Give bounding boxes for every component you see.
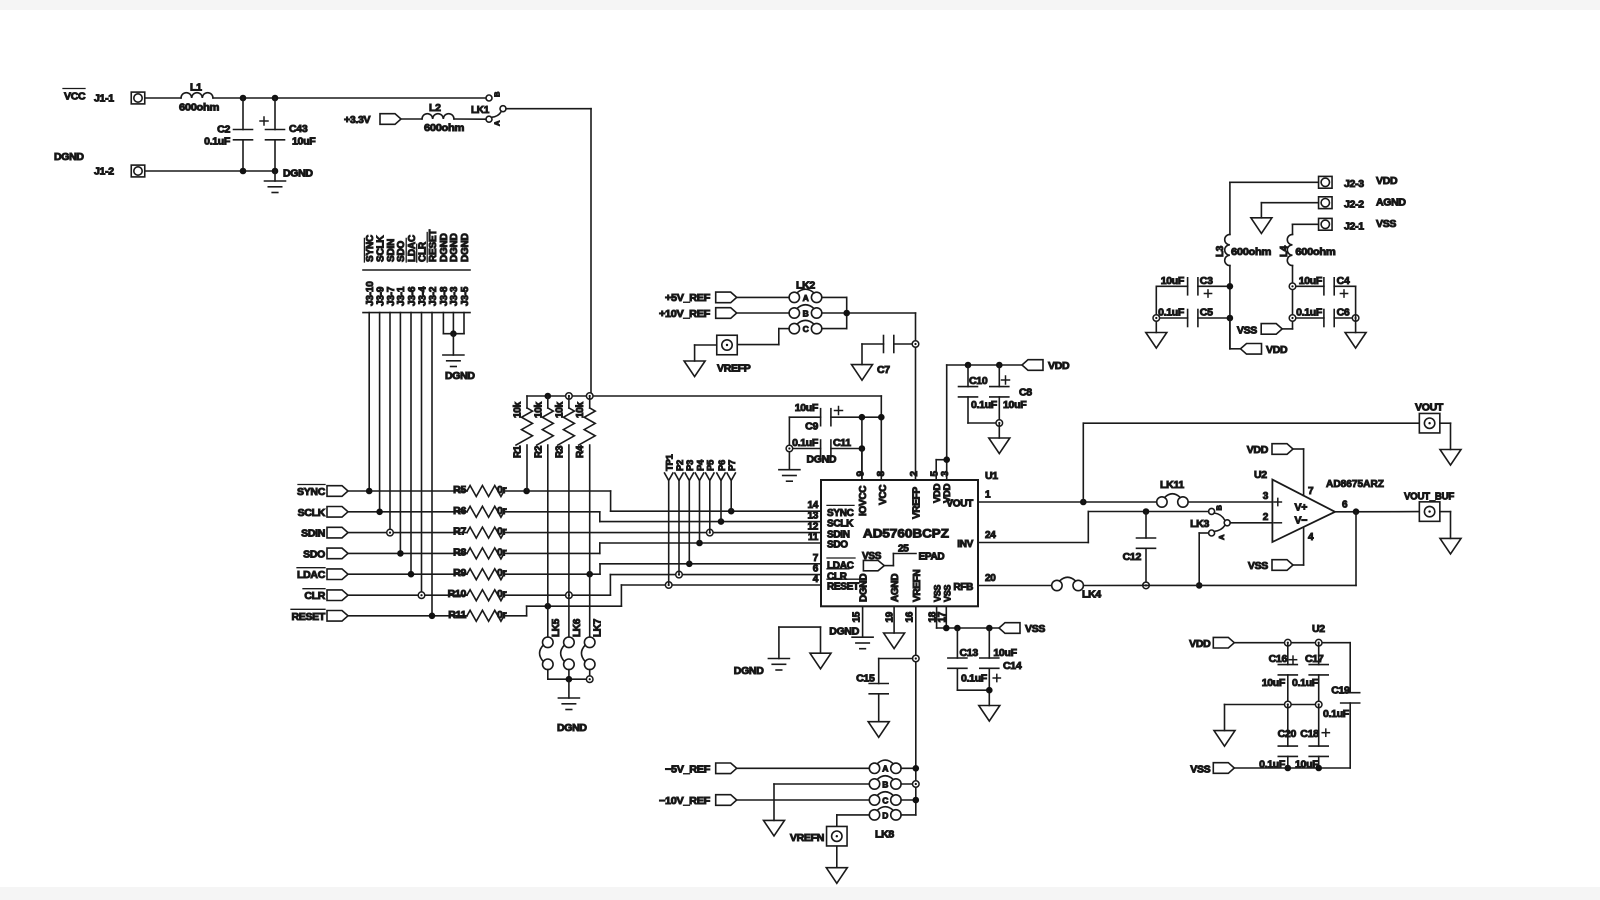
node junction xyxy=(843,310,850,317)
svg-text:DGND: DGND xyxy=(449,233,460,262)
ground AGND xyxy=(1214,731,1235,747)
wire C9 row xyxy=(789,416,820,418)
node junction R3-LK6-CLR xyxy=(566,592,573,599)
capacitor C43 polarized xyxy=(274,98,276,130)
svg-text:0.1uF: 0.1uF xyxy=(961,673,988,685)
wire LK3 to op-amp pin2 xyxy=(1230,522,1272,524)
svg-text:LK6: LK6 xyxy=(572,618,583,637)
svg-text:RESET: RESET xyxy=(827,582,859,593)
capacitor C4 10uF polarized xyxy=(1296,285,1324,287)
svg-text:C11: C11 xyxy=(833,437,851,449)
svg-text:−5V_REF: −5V_REF xyxy=(665,763,711,775)
capacitor C8 10uF polarized xyxy=(998,365,1000,387)
capacitor C11 0.1uF xyxy=(820,440,822,457)
svg-text:DGND: DGND xyxy=(445,370,475,382)
svg-text:DGND: DGND xyxy=(829,626,859,638)
svg-text:C13: C13 xyxy=(960,647,979,659)
svg-text:R7: R7 xyxy=(453,526,466,538)
svg-text:0.1uF: 0.1uF xyxy=(971,399,998,411)
capacitor C12 xyxy=(1145,512,1147,539)
resistor R3 10k xyxy=(568,396,570,408)
svg-text:SDO: SDO xyxy=(827,540,848,551)
svg-text:RFB: RFB xyxy=(953,582,973,593)
node junction xyxy=(1196,582,1203,589)
node junction xyxy=(1289,315,1296,322)
wire LK8 B row to ground xyxy=(774,783,869,785)
svg-text:5: 5 xyxy=(930,471,941,477)
wire xyxy=(1230,181,1319,183)
svg-text:DGND: DGND xyxy=(54,151,84,163)
capacitor C5 0.1uF xyxy=(1160,317,1188,319)
wire CLR row xyxy=(348,594,467,596)
ground AGND xyxy=(868,722,889,738)
ground DGND near U1 top xyxy=(788,452,790,470)
ground AGND xyxy=(1345,333,1366,349)
wire LK8 right joins xyxy=(901,767,916,769)
svg-text:VREFN: VREFN xyxy=(912,570,923,602)
node junction xyxy=(1285,639,1292,646)
svg-text:C8: C8 xyxy=(1019,387,1032,399)
svg-text:10uF: 10uF xyxy=(795,402,819,414)
svg-text:10uF: 10uF xyxy=(1299,275,1323,287)
svg-text:J3-9: J3-9 xyxy=(375,286,386,306)
net label VDD xyxy=(1241,344,1262,355)
svg-text:A: A xyxy=(1217,534,1226,540)
node junction R1-SYNC xyxy=(523,488,530,495)
svg-text:C14: C14 xyxy=(1003,660,1022,672)
svg-text:6: 6 xyxy=(813,564,819,575)
svg-text:VSS: VSS xyxy=(1025,623,1045,635)
svg-text:VSS: VSS xyxy=(1248,560,1268,572)
link LK5 xyxy=(547,606,549,637)
svg-text:J3-3: J3-3 xyxy=(449,286,460,306)
wire SYNC row xyxy=(348,490,467,492)
capacitor C17 0.1uF xyxy=(1318,643,1320,665)
wire IOVCC pin 9 xyxy=(861,417,863,480)
wire DGND pins join xyxy=(442,313,444,334)
wire xyxy=(968,422,999,424)
link LK8 xyxy=(869,763,879,773)
svg-text:R5: R5 xyxy=(453,484,466,496)
svg-text:VDD: VDD xyxy=(1189,638,1211,650)
ground AGND xyxy=(852,365,873,381)
svg-text:C43: C43 xyxy=(289,123,308,135)
svg-text:15: 15 xyxy=(852,611,863,622)
svg-text:4: 4 xyxy=(1308,532,1314,543)
wire to VOUT pad xyxy=(1082,423,1084,502)
wire xyxy=(213,97,486,99)
capacitor C7 xyxy=(862,343,884,345)
node junction xyxy=(240,168,247,175)
op-amp U1 AD5760BCPZ body xyxy=(821,480,978,606)
wire xyxy=(401,118,422,120)
svg-text:C6: C6 xyxy=(1337,307,1350,319)
svg-text:C16: C16 xyxy=(1269,653,1288,665)
svg-text:A: A xyxy=(493,120,502,126)
svg-text:0r: 0r xyxy=(497,526,507,538)
wire xyxy=(737,799,870,801)
capacitor C16 10uF polarized xyxy=(1287,643,1289,665)
node junction TP3 xyxy=(686,561,693,568)
node junction TP1 xyxy=(665,582,672,589)
svg-text:0r: 0r xyxy=(497,546,507,558)
wire SDO to pin 11 xyxy=(504,552,600,554)
node junction J3 tap CLR xyxy=(418,592,425,599)
svg-text:VCC: VCC xyxy=(878,485,889,505)
node junction TP5 xyxy=(707,529,714,536)
wire xyxy=(145,170,275,172)
svg-text:LK11: LK11 xyxy=(1160,479,1184,491)
wire LK3 bottom to feedback xyxy=(1199,532,1208,534)
connector J3 pin bar xyxy=(363,312,470,314)
svg-text:AGND: AGND xyxy=(1376,197,1406,209)
svg-text:SDIN: SDIN xyxy=(386,239,397,262)
svg-text:C3: C3 xyxy=(1200,275,1213,287)
svg-text:R9: R9 xyxy=(453,567,466,579)
svg-text:24: 24 xyxy=(985,530,996,541)
svg-text:10uF: 10uF xyxy=(993,647,1017,659)
ground AGND xyxy=(764,820,785,836)
node junction xyxy=(943,625,950,632)
svg-text:AGND: AGND xyxy=(890,574,901,602)
svg-text:L1: L1 xyxy=(190,82,202,94)
wire xyxy=(1261,202,1318,204)
node junction C15 tap xyxy=(913,655,920,662)
svg-text:J3-6: J3-6 xyxy=(407,286,418,306)
svg-text:+5V_REF: +5V_REF xyxy=(665,292,711,304)
svg-text:U1: U1 xyxy=(985,470,998,482)
svg-text:1: 1 xyxy=(985,490,991,501)
node junction J3 tap SCLK xyxy=(376,509,383,516)
capacitor C13 0.1uF xyxy=(956,628,958,658)
svg-text:D: D xyxy=(882,810,888,820)
svg-text:LDAC: LDAC xyxy=(297,569,326,581)
svg-text:0.1uF: 0.1uF xyxy=(1296,307,1323,319)
wire xyxy=(1155,321,1157,332)
ground AGND xyxy=(1440,450,1461,466)
svg-text:C2: C2 xyxy=(217,124,230,136)
svg-text:L3: L3 xyxy=(1215,245,1226,257)
link LK3 xyxy=(1209,508,1215,514)
wire xyxy=(454,118,486,120)
svg-text:C17: C17 xyxy=(1305,653,1324,665)
net label VSS xyxy=(999,623,1020,634)
svg-text:VSS: VSS xyxy=(1190,764,1210,776)
svg-text:LDAC: LDAC xyxy=(827,561,854,572)
svg-text:L2: L2 xyxy=(429,102,441,114)
svg-text:10uF: 10uF xyxy=(1003,399,1027,411)
svg-text:VOUT_BUF: VOUT_BUF xyxy=(1404,491,1455,503)
node junction xyxy=(1080,499,1087,506)
wire SCLK to pin 13 xyxy=(504,511,600,513)
svg-text:2: 2 xyxy=(909,471,920,477)
ground AGND xyxy=(1146,333,1167,349)
connector J2-1 xyxy=(1319,218,1333,230)
capacitor C3 10uF polarized xyxy=(1156,285,1187,287)
svg-text:J3-4: J3-4 xyxy=(417,286,428,306)
link LK4 xyxy=(1052,580,1062,590)
svg-text:A: A xyxy=(882,764,888,774)
node junction xyxy=(1289,283,1296,290)
node junction xyxy=(996,420,1003,427)
capacitor C14 10uF polarized xyxy=(988,628,990,658)
svg-text:VREFN: VREFN xyxy=(790,832,824,844)
svg-text:VSS: VSS xyxy=(933,585,943,602)
svg-text:10k: 10k xyxy=(533,401,544,418)
svg-text:C10: C10 xyxy=(969,375,988,387)
wire SCLK row xyxy=(348,511,467,513)
svg-text:A: A xyxy=(803,293,809,303)
svg-text:C20: C20 xyxy=(1278,728,1297,740)
svg-text:0.1uF: 0.1uF xyxy=(204,136,231,148)
wire AGND mid rail xyxy=(1225,704,1319,706)
svg-text:VOUT: VOUT xyxy=(946,499,973,510)
wire LK8 D row to VREFN pad xyxy=(837,814,869,816)
op-amp U2 AD8675ARZ xyxy=(1272,480,1335,542)
svg-text:3: 3 xyxy=(940,471,951,477)
wire xyxy=(506,108,591,110)
svg-text:600ohm: 600ohm xyxy=(1231,246,1271,258)
svg-text:R3: R3 xyxy=(554,445,565,458)
svg-text:SYNC: SYNC xyxy=(297,486,326,498)
svg-text:VSS: VSS xyxy=(942,585,952,602)
wire pin24 INV xyxy=(978,542,1088,544)
wire xyxy=(1355,286,1357,332)
wire VSS pins 18 17 xyxy=(936,606,938,628)
svg-text:SYNC: SYNC xyxy=(365,235,376,262)
ground AGND xyxy=(826,868,847,884)
svg-text:SDIN: SDIN xyxy=(827,529,850,540)
wire SDIN row xyxy=(348,532,467,534)
wire RESET to pin 4 xyxy=(504,615,527,617)
svg-text:DGND: DGND xyxy=(460,233,471,262)
wire xyxy=(1293,564,1304,566)
node junction xyxy=(545,393,552,400)
svg-text:J3-1: J3-1 xyxy=(396,286,407,306)
svg-text:B: B xyxy=(1215,505,1224,511)
svg-text:11: 11 xyxy=(808,532,819,543)
svg-text:R6: R6 xyxy=(453,505,466,517)
svg-text:INV: INV xyxy=(957,539,973,550)
svg-text:SDO: SDO xyxy=(303,548,325,560)
svg-text:7: 7 xyxy=(813,553,819,564)
wire xyxy=(957,689,989,691)
svg-text:13: 13 xyxy=(807,511,818,522)
svg-text:C18: C18 xyxy=(1300,728,1319,740)
svg-text:VOUT: VOUT xyxy=(1415,402,1444,414)
wire SDIN from J3 xyxy=(389,313,391,533)
connector VOUT_BUF pad xyxy=(1419,502,1440,521)
svg-text:DGND: DGND xyxy=(557,722,587,734)
svg-text:10k: 10k xyxy=(575,401,586,418)
connector VOUT pad xyxy=(1419,413,1440,433)
svg-text:LK4: LK4 xyxy=(1082,589,1101,601)
wire xyxy=(1083,584,1199,586)
svg-text:L4: L4 xyxy=(1279,245,1290,257)
wire CLR from J3 xyxy=(421,313,423,596)
wire RESET from J3 xyxy=(431,313,433,616)
svg-text:VREFP: VREFP xyxy=(912,487,923,519)
wire pin20 RFB xyxy=(978,585,1052,587)
node junction xyxy=(913,765,920,772)
wire VDD stub xyxy=(1229,318,1231,349)
node junction xyxy=(1227,283,1234,290)
svg-text:R11: R11 xyxy=(448,609,466,621)
node junction xyxy=(1285,701,1292,708)
svg-text:C15: C15 xyxy=(856,673,875,685)
svg-text:2: 2 xyxy=(1263,512,1269,523)
svg-text:P7: P7 xyxy=(727,460,738,471)
svg-text:J1-1: J1-1 xyxy=(94,93,114,105)
node junction xyxy=(1143,508,1150,515)
capacitor C19 0.1uF xyxy=(1349,643,1351,693)
resistor R6 0r xyxy=(467,506,504,517)
wire SDIN to pin 12 xyxy=(504,532,821,534)
svg-text:12: 12 xyxy=(807,522,818,533)
svg-text:25: 25 xyxy=(898,544,909,555)
svg-text:0r: 0r xyxy=(497,588,507,600)
resistor R2 10k xyxy=(547,396,549,408)
node junction xyxy=(240,95,247,102)
resistor R10 0r xyxy=(467,590,504,601)
wire xyxy=(737,296,789,298)
ground DGND of J3 xyxy=(452,334,454,355)
svg-text:J2-3: J2-3 xyxy=(1344,178,1364,190)
svg-text:C4: C4 xyxy=(1337,275,1350,287)
capacitor C6 0.1uF xyxy=(1296,317,1324,319)
svg-text:R8: R8 xyxy=(453,546,466,558)
wire C11 row xyxy=(793,448,821,450)
net label VDD xyxy=(1022,360,1043,371)
svg-text:IOVCC: IOVCC xyxy=(858,486,869,516)
wire LDAC row xyxy=(348,573,467,575)
svg-text:3: 3 xyxy=(1263,491,1269,502)
node junction xyxy=(986,687,993,694)
resistor R5 0r xyxy=(467,486,504,497)
resistor R9 0r xyxy=(467,569,504,580)
node junction xyxy=(566,676,573,683)
svg-text:600ohm: 600ohm xyxy=(1295,246,1335,258)
svg-text:J3-7: J3-7 xyxy=(386,286,397,306)
svg-text:9: 9 xyxy=(856,471,867,477)
resistor R8 0r xyxy=(467,548,504,559)
wire RESET row xyxy=(348,615,467,617)
inductor L1 xyxy=(181,93,213,98)
wire VSS rail U2 xyxy=(1234,767,1350,769)
svg-text:LK8: LK8 xyxy=(875,829,894,841)
svg-text:10uF: 10uF xyxy=(1262,677,1286,689)
svg-text:0r: 0r xyxy=(497,505,507,517)
svg-text:C5: C5 xyxy=(1200,307,1213,319)
svg-text:RESET: RESET xyxy=(291,611,325,623)
svg-text:SCLK: SCLK xyxy=(375,235,386,262)
wire xyxy=(861,449,863,481)
svg-text:CLR: CLR xyxy=(304,590,325,602)
svg-text:SCLK: SCLK xyxy=(827,518,854,529)
svg-text:−10V_REF: −10V_REF xyxy=(659,795,711,807)
wire VREFN pin 16 xyxy=(915,606,917,815)
svg-text:P5: P5 xyxy=(706,459,717,471)
inductor L3 600ohm xyxy=(1225,234,1230,265)
svg-text:VREFP: VREFP xyxy=(717,363,751,375)
svg-text:0.1uF: 0.1uF xyxy=(1158,307,1185,319)
ground DGND of links xyxy=(568,679,570,698)
wire xyxy=(1282,328,1292,330)
svg-text:LK7: LK7 xyxy=(593,618,604,637)
svg-text:0.1uF: 0.1uF xyxy=(1292,677,1319,689)
wire xyxy=(1440,511,1451,513)
svg-text:R1: R1 xyxy=(513,445,524,458)
connector J2-2 xyxy=(1319,197,1333,209)
node junction R4-LK7-LDAC xyxy=(586,571,593,578)
wire SDO row xyxy=(348,552,467,554)
svg-text:SYNC: SYNC xyxy=(827,508,854,519)
link LK6 xyxy=(568,595,570,637)
node junction xyxy=(1153,315,1160,322)
node junction C7 to VREFP net xyxy=(912,341,919,348)
svg-text:6: 6 xyxy=(1342,500,1348,511)
wire xyxy=(737,312,789,314)
wire CLR to pin 6 xyxy=(504,594,610,596)
svg-text:C: C xyxy=(882,795,888,805)
svg-text:DGND: DGND xyxy=(734,665,764,677)
wire SDO from J3 xyxy=(399,313,401,554)
wire xyxy=(1155,286,1157,318)
wire xyxy=(1293,223,1319,225)
svg-text:0r: 0r xyxy=(497,484,507,496)
connector J2-3 xyxy=(1319,176,1333,188)
wire LDAC from J3 xyxy=(410,313,412,575)
svg-text:AD8675ARZ: AD8675ARZ xyxy=(1326,478,1385,490)
capacitor C9 10uF polarized xyxy=(820,409,822,426)
svg-text:14: 14 xyxy=(807,500,818,511)
svg-text:LK3: LK3 xyxy=(1190,518,1209,530)
node junction xyxy=(1285,765,1292,772)
node junction xyxy=(965,362,972,369)
svg-text:RESET: RESET xyxy=(428,230,439,262)
wire VDD pins 5 and 3 xyxy=(935,460,937,480)
svg-text:4: 4 xyxy=(813,574,819,585)
ground AGND pin 19 xyxy=(893,606,895,633)
node junction xyxy=(943,456,950,463)
svg-text:R10: R10 xyxy=(448,588,467,600)
svg-text:C: C xyxy=(803,324,809,334)
svg-text:VDD: VDD xyxy=(1376,175,1398,187)
svg-text:VDD: VDD xyxy=(1266,344,1288,356)
wire VDD rail xyxy=(947,364,1022,366)
wire xyxy=(1292,266,1294,329)
svg-text:20: 20 xyxy=(985,573,996,584)
svg-text:VDD: VDD xyxy=(1048,360,1070,372)
svg-text:EPAD: EPAD xyxy=(919,552,945,563)
svg-text:SDIN: SDIN xyxy=(301,528,325,540)
svg-text:J3-10: J3-10 xyxy=(365,281,376,306)
svg-text:J2-2: J2-2 xyxy=(1344,199,1364,211)
wire VCC pin 8 xyxy=(880,396,882,480)
svg-text:J1-2: J1-2 xyxy=(94,166,114,178)
svg-text:U2: U2 xyxy=(1312,623,1325,635)
node junction J3 tap SDO xyxy=(397,550,404,557)
svg-text:SCLK: SCLK xyxy=(298,507,326,519)
node junction R2-LK5-RESET xyxy=(545,603,552,610)
resistor R7 0r xyxy=(467,527,504,538)
node junction TP2 xyxy=(676,571,683,578)
svg-text:C12: C12 xyxy=(1123,551,1142,563)
node junction J3 tap RESET xyxy=(429,613,436,620)
wire SCLK from J3 xyxy=(379,313,381,512)
wire xyxy=(1188,501,1272,503)
svg-text:DGND: DGND xyxy=(807,454,837,466)
